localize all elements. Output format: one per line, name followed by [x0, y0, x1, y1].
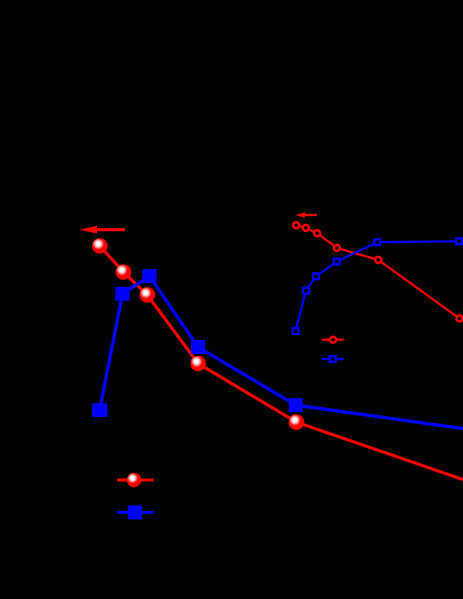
main blue square markers: [92, 269, 303, 417]
inset blue open square markers: [293, 238, 462, 334]
inset red series line: [296, 225, 459, 318]
main legend red entry: [117, 473, 154, 487]
main red sphere markers: [92, 238, 304, 430]
main red series line: [100, 246, 463, 480]
inset red left-pointing arrow: [295, 212, 316, 217]
inset blue series line: [296, 241, 459, 331]
main blue series line: [100, 276, 463, 429]
inset legend blue entry: [321, 356, 344, 362]
inset red open circle markers: [293, 222, 462, 321]
inset legend red entry: [322, 337, 344, 343]
main legend blue entry: [117, 505, 154, 519]
main red left-pointing arrow: [79, 226, 125, 234]
